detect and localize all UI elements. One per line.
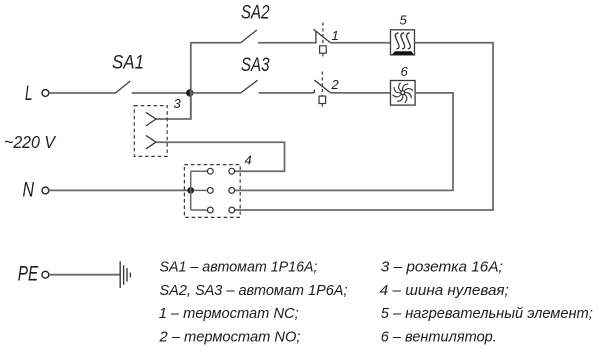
- svg-text:L: L: [25, 82, 33, 105]
- wire thermostat 2 to fan 6: [330, 92, 390, 94]
- wire socket 3 to neutral bus: [156, 142, 284, 171]
- label 5 (heater): [400, 13, 408, 28]
- wire thermostat 1 to heater 5: [330, 42, 390, 44]
- wire node A to SA3: [190, 92, 241, 94]
- label SA3: [241, 55, 270, 76]
- label 2 (thermostat): [331, 77, 340, 92]
- label SA2: [241, 3, 270, 24]
- legend SA2 SA3: [160, 282, 348, 299]
- legend thermostat NC: [159, 305, 299, 322]
- terminal PE: [18, 263, 49, 286]
- svg-text:N: N: [23, 178, 35, 201]
- svg-text:SA2, SA3 – автомат 1P6A;: SA2, SA3 – автомат 1P6A;: [160, 282, 348, 299]
- thermostat 1 contact NC: [314, 23, 331, 58]
- terminal N: [23, 178, 49, 201]
- junction node N on bus: [187, 187, 194, 194]
- switch SA3: [241, 80, 258, 93]
- label 3 (socket): [174, 96, 182, 111]
- ground PE symbol: [120, 261, 130, 288]
- svg-text:3: 3: [174, 96, 182, 111]
- legend SA1: [160, 259, 318, 276]
- svg-text:2 – термостат NO;: 2 – термостат NO;: [159, 329, 301, 346]
- svg-text:SA1: SA1: [112, 53, 144, 74]
- wire heater 5 return to neutral bus: [235, 43, 493, 210]
- fan 6: [391, 81, 416, 106]
- wire SA3 to thermostat 2: [259, 92, 314, 94]
- wire fan 6 return to neutral bus: [235, 93, 453, 190]
- heater element 5: [391, 30, 415, 55]
- thermostat 2 contact NO: [314, 72, 330, 108]
- svg-text:5: 5: [400, 13, 408, 28]
- neutral bus 4: [184, 165, 240, 218]
- legend fan: [381, 329, 497, 346]
- svg-text:SA2: SA2: [241, 3, 270, 24]
- wire SA1 to node A: [132, 92, 190, 94]
- legend socket: [381, 259, 503, 276]
- svg-text:4 – шина нулевая;: 4 – шина нулевая;: [380, 282, 509, 299]
- label 4 (bus): [245, 153, 252, 168]
- svg-text:~220 V: ~220 V: [4, 132, 57, 152]
- svg-text:SA1 – автомат 1P16A;: SA1 – автомат 1P16A;: [160, 259, 318, 276]
- svg-text:6 – вентилятор.: 6 – вентилятор.: [381, 329, 497, 346]
- wire N to neutral bus: [49, 189, 191, 191]
- junction node A: [186, 89, 193, 96]
- socket 3: [134, 106, 167, 157]
- label 6 (fan): [401, 64, 409, 79]
- terminal L: [25, 82, 49, 105]
- svg-text:PE: PE: [18, 263, 39, 286]
- svg-text:SA3: SA3: [241, 55, 270, 76]
- svg-text:4: 4: [245, 153, 252, 168]
- wire node A down to socket top contact: [156, 93, 191, 119]
- label 1 (thermostat): [332, 28, 339, 43]
- svg-text:3 – розетка 16А;: 3 – розетка 16А;: [381, 259, 503, 276]
- svg-text:2: 2: [331, 77, 340, 92]
- label SA1: [112, 53, 144, 74]
- legend heater: [381, 305, 593, 322]
- svg-text:5 – нагревательный элемент;: 5 – нагревательный элемент;: [381, 305, 593, 322]
- wire PE to ground: [49, 274, 120, 276]
- svg-text:1: 1: [332, 28, 339, 43]
- wire SA2 to thermostat 1: [258, 42, 316, 44]
- svg-text:1 – термостат NC;: 1 – термостат NC;: [159, 305, 299, 322]
- svg-text:6: 6: [401, 64, 409, 79]
- switch SA2: [241, 30, 257, 43]
- label ~220 V: [4, 132, 57, 152]
- legend bus: [380, 282, 509, 299]
- wire node A riser to SA2: [191, 43, 241, 119]
- switch SA1: [116, 81, 131, 93]
- wire L to SA1: [49, 92, 116, 94]
- legend thermostat NO: [159, 329, 301, 346]
